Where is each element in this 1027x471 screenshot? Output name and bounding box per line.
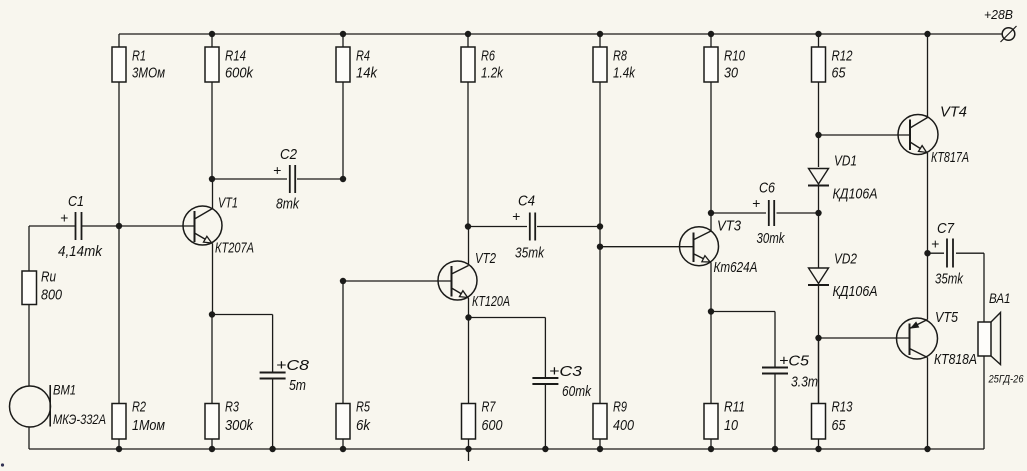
svg-text:R7: R7 xyxy=(482,399,496,416)
resistor R13 xyxy=(812,337,826,449)
capacitor C6 xyxy=(711,200,819,226)
svg-text:ВМ1: ВМ1 xyxy=(53,382,76,398)
svg-text:R14: R14 xyxy=(225,48,246,65)
svg-text:R12: R12 xyxy=(832,48,853,65)
svg-text:65: 65 xyxy=(832,417,847,434)
label R8 value xyxy=(613,48,636,82)
diode VD2 xyxy=(808,268,829,285)
label VT1 value xyxy=(215,195,254,257)
svg-text:КД106А: КД106А xyxy=(833,186,878,203)
svg-text:400: 400 xyxy=(613,417,635,434)
svg-text:R5: R5 xyxy=(356,399,370,416)
svg-text:R10: R10 xyxy=(724,48,745,65)
terminal +28B connector xyxy=(1001,26,1017,42)
label R5 value xyxy=(356,399,371,435)
svg-text:60mk: 60mk xyxy=(562,383,592,400)
stray ink dot bottom left xyxy=(1,463,4,466)
svg-text:600: 600 xyxy=(482,417,504,434)
label R1 value xyxy=(132,48,165,82)
label BM1 value xyxy=(53,382,106,428)
label R2 value xyxy=(132,399,165,435)
svg-text:30mk: 30mk xyxy=(757,230,786,247)
label R12 value xyxy=(832,48,853,82)
wire VD1 to C6 node xyxy=(818,186,820,269)
wire C7 to speaker xyxy=(983,253,985,322)
svg-text:R9: R9 xyxy=(613,399,627,416)
wire R12 to VD1 node xyxy=(818,135,820,167)
svg-text:30: 30 xyxy=(724,65,739,82)
svg-text:VT2: VT2 xyxy=(475,250,496,267)
label R14 value xyxy=(225,48,254,82)
capacitor C1 xyxy=(29,212,119,240)
svg-text:R6: R6 xyxy=(481,48,495,65)
svg-text:R11: R11 xyxy=(724,399,745,416)
transistor VT2 xyxy=(343,227,477,318)
svg-text:R8: R8 xyxy=(613,48,627,65)
svg-text:25ГД-26: 25ГД-26 xyxy=(988,374,1025,386)
svg-text:1.4k: 1.4k xyxy=(613,65,636,82)
svg-text:+28В: +28В xyxy=(984,7,1013,22)
transistor VT3 xyxy=(600,213,719,312)
label VD1 value xyxy=(833,153,878,203)
label C6 value xyxy=(752,180,786,248)
resistor R3 xyxy=(205,315,219,450)
label C5 value xyxy=(779,353,818,391)
svg-text:VT1: VT1 xyxy=(218,195,238,212)
capacitor C2 xyxy=(212,165,343,193)
resistor R7 xyxy=(462,318,476,462)
label R4 value xyxy=(356,48,378,82)
junction dots bottom rail xyxy=(116,446,931,452)
svg-text:+C3: +C3 xyxy=(549,363,583,380)
svg-text:МКЭ-332А: МКЭ-332А xyxy=(53,411,106,427)
svg-text:+C8: +C8 xyxy=(276,357,310,374)
svg-text:+: + xyxy=(931,236,939,252)
svg-text:C7: C7 xyxy=(937,220,955,237)
label Ru value xyxy=(41,269,63,304)
label C2 value xyxy=(273,146,300,213)
label BA1 value xyxy=(988,290,1025,386)
capacitor C3 xyxy=(532,378,558,449)
svg-text:КТ207А: КТ207А xyxy=(215,240,254,257)
label R10 value xyxy=(724,48,745,82)
resistor R8 xyxy=(593,34,607,247)
svg-text:1Мом: 1Мом xyxy=(132,417,165,434)
svg-text:8mk: 8mk xyxy=(276,196,300,213)
label VT2 value xyxy=(472,250,510,310)
svg-text:+: + xyxy=(512,208,520,224)
resistor R4 xyxy=(336,34,350,179)
label VT5 value xyxy=(934,309,977,368)
capacitor C4 xyxy=(468,213,600,241)
svg-text:3МОм: 3МОм xyxy=(132,65,165,82)
resistor Ru xyxy=(22,226,37,386)
svg-text:5m: 5m xyxy=(289,377,306,394)
svg-text:VT4: VT4 xyxy=(940,104,967,121)
transistor VT4 xyxy=(819,34,939,253)
resistor R9 xyxy=(593,247,607,449)
svg-text:КТ818А: КТ818А xyxy=(934,351,977,368)
wire node to C3 xyxy=(469,318,546,379)
svg-text:600k: 600k xyxy=(225,65,254,82)
wire top +28V supply rail xyxy=(119,33,1002,35)
svg-text:Ru: Ru xyxy=(41,269,57,286)
svg-text:R3: R3 xyxy=(225,399,239,416)
svg-text:VT5: VT5 xyxy=(935,309,959,326)
junction dots top rail xyxy=(209,31,931,37)
resistor R12 xyxy=(812,34,826,135)
wire bottom ground rail xyxy=(29,448,984,450)
resistor R1 xyxy=(112,34,126,226)
svg-text:C2: C2 xyxy=(280,146,298,163)
svg-text:КД106А: КД106А xyxy=(833,283,878,300)
label R9 value xyxy=(613,399,635,435)
svg-text:ВА1: ВА1 xyxy=(989,290,1011,306)
svg-text:+: + xyxy=(60,210,68,226)
svg-text:R1: R1 xyxy=(132,48,146,65)
label R7 value xyxy=(482,399,504,435)
label VT3 value xyxy=(714,218,758,277)
resistor R6 xyxy=(461,34,475,227)
svg-text:Кт624А: Кт624А xyxy=(714,259,758,276)
label R13 value xyxy=(832,399,853,435)
svg-text:6k: 6k xyxy=(356,417,371,434)
svg-text:VT3: VT3 xyxy=(717,218,742,235)
svg-text:800: 800 xyxy=(41,287,63,304)
svg-text:C1: C1 xyxy=(68,193,84,210)
label VT4 value xyxy=(931,104,969,167)
resistor R10 xyxy=(704,34,718,213)
resistor R14 xyxy=(205,34,219,179)
svg-text:+: + xyxy=(273,162,281,178)
capacitor C5 xyxy=(762,368,788,450)
label C3 value xyxy=(549,363,592,400)
microphone BM1 xyxy=(10,385,51,449)
capacitor C7 xyxy=(928,239,985,268)
svg-text:+C5: +C5 xyxy=(779,353,810,370)
capacitor C8 xyxy=(260,373,286,450)
svg-text:14k: 14k xyxy=(356,65,378,82)
svg-text:C6: C6 xyxy=(759,180,776,197)
resistor R11 xyxy=(704,312,718,450)
label C4 value xyxy=(512,193,545,262)
svg-text:C4: C4 xyxy=(518,193,535,210)
speaker BA1 xyxy=(978,313,1001,450)
transistor VT5 xyxy=(819,253,938,449)
svg-text:+: + xyxy=(752,195,760,211)
svg-text:R13: R13 xyxy=(832,399,853,416)
svg-text:КТ817А: КТ817А xyxy=(931,149,969,166)
svg-text:65: 65 xyxy=(832,65,847,82)
wire node to C5 xyxy=(711,312,775,368)
svg-text:3.3m: 3.3m xyxy=(791,374,818,391)
svg-text:10: 10 xyxy=(724,417,739,434)
junction dots middle nodes xyxy=(116,132,931,341)
transistor VT1 xyxy=(119,179,222,315)
svg-text:R2: R2 xyxy=(132,399,146,416)
label R11 value xyxy=(724,399,745,435)
wire VD2 to VT5-base node xyxy=(818,286,820,404)
label C7 value xyxy=(931,220,964,288)
svg-text:VD1: VD1 xyxy=(834,153,857,170)
label C8 value xyxy=(276,357,310,394)
diode VD1 xyxy=(808,169,829,186)
svg-text:4,14mk: 4,14mk xyxy=(58,243,103,260)
svg-text:300k: 300k xyxy=(225,417,254,434)
svg-text:1.2k: 1.2k xyxy=(481,65,504,82)
svg-text:35mk: 35mk xyxy=(515,245,545,262)
resistor R5 xyxy=(336,281,350,449)
svg-text:КТ120А: КТ120А xyxy=(472,293,510,310)
label +28B xyxy=(984,7,1013,22)
label R6 value xyxy=(481,48,504,82)
svg-text:35mk: 35mk xyxy=(935,271,964,288)
label VD2 value xyxy=(833,251,878,301)
resistor R2 xyxy=(112,226,126,449)
label R3 value xyxy=(225,399,254,435)
label C1 value xyxy=(58,193,103,260)
svg-text:R4: R4 xyxy=(356,48,370,65)
wire node to C8 xyxy=(212,315,273,373)
svg-text:VD2: VD2 xyxy=(834,251,858,268)
